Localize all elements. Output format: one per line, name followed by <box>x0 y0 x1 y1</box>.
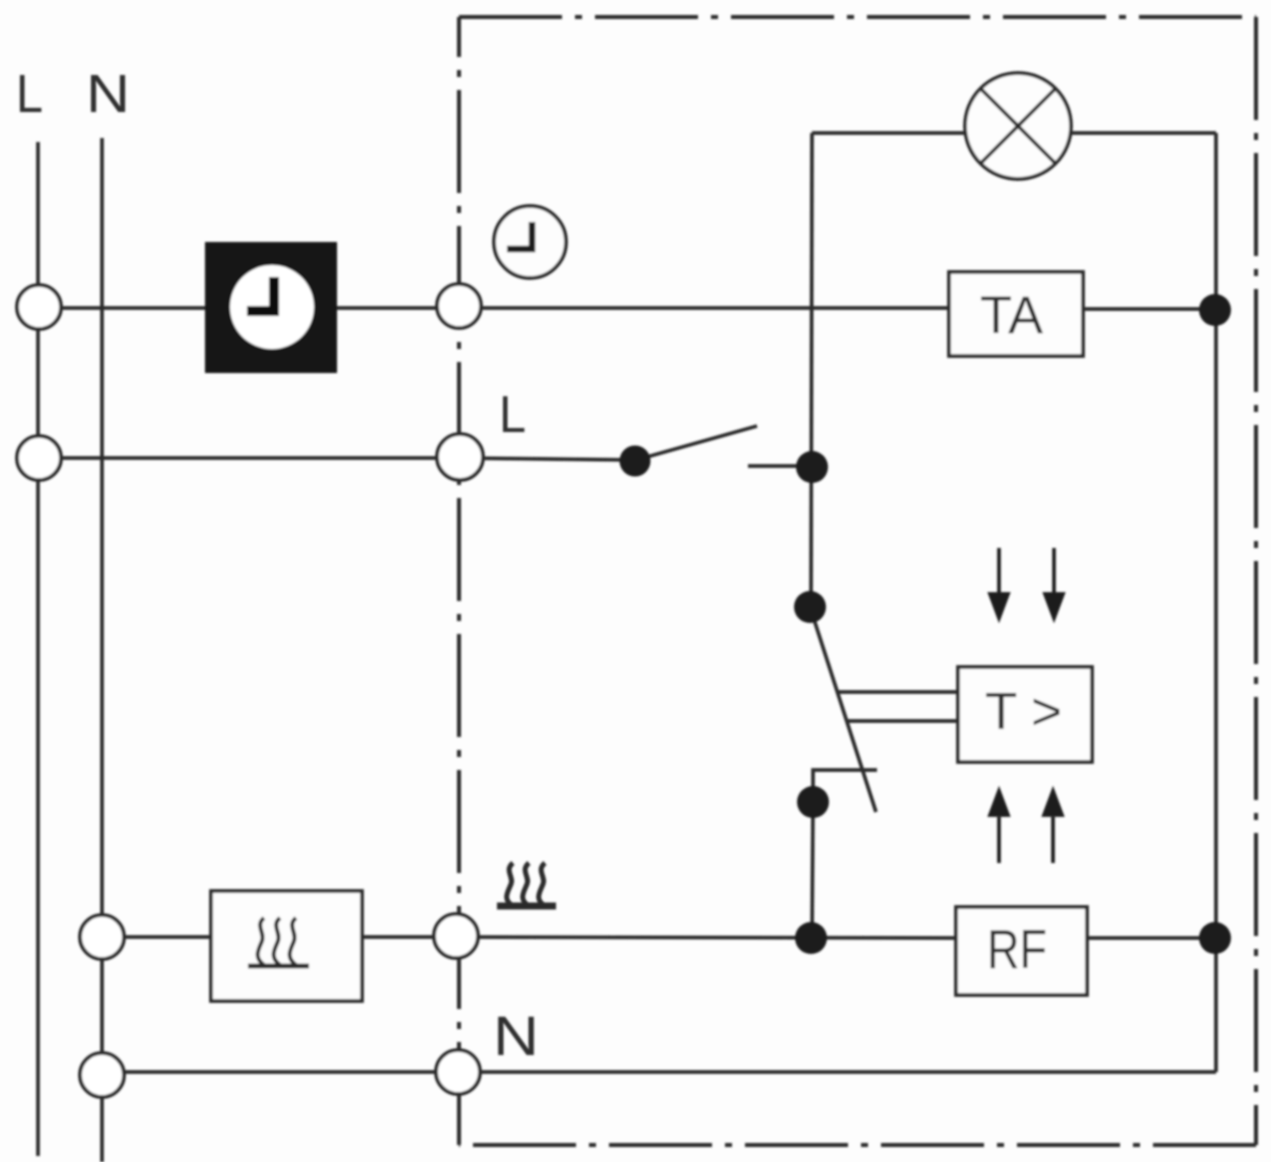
svg-text:N: N <box>86 64 130 124</box>
svg-text:T >: T > <box>985 683 1062 741</box>
svg-text:TA: TA <box>980 286 1044 345</box>
svg-text:N: N <box>493 1004 539 1067</box>
svg-text:L: L <box>16 64 43 124</box>
svg-text:RF: RF <box>987 918 1047 980</box>
svg-text:L: L <box>499 386 526 444</box>
